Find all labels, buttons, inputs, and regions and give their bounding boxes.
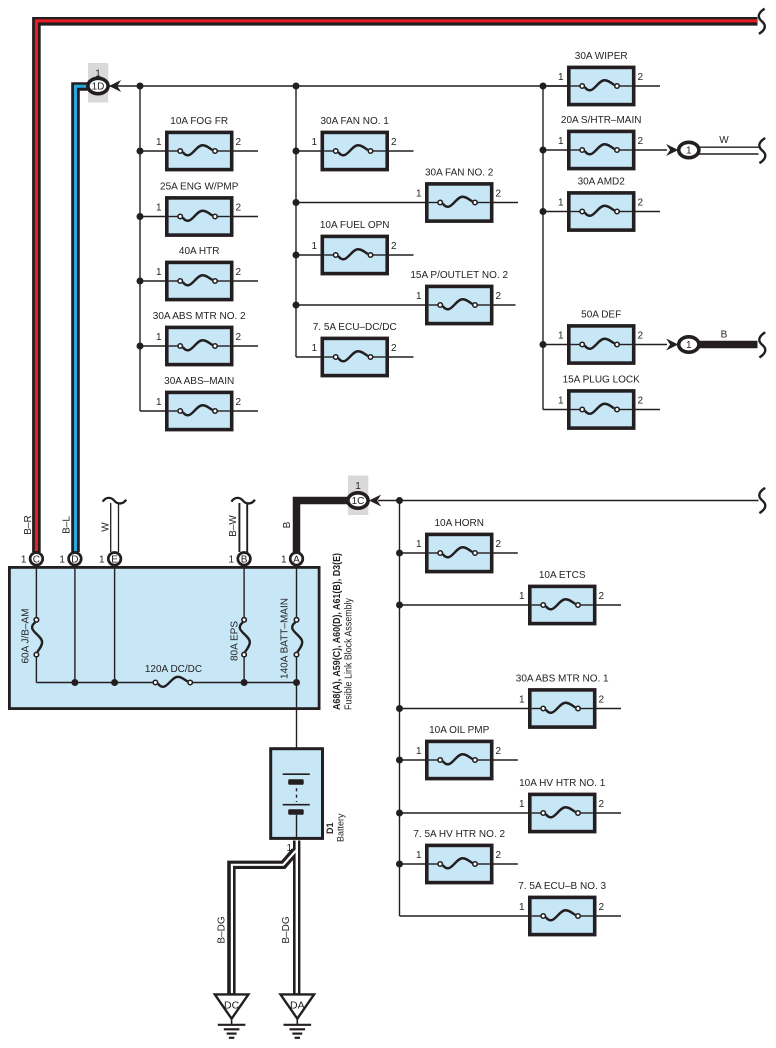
svg-text:2: 2 (236, 137, 242, 148)
svg-text:1C: 1C (352, 496, 365, 507)
svg-text:B–L: B–L (62, 516, 73, 534)
svg-text:10A ETCS: 10A ETCS (539, 570, 586, 581)
svg-text:1: 1 (416, 746, 422, 757)
svg-text:2: 2 (236, 203, 242, 214)
svg-text:2: 2 (599, 695, 605, 706)
svg-text:10A FUEL OPN: 10A FUEL OPN (320, 220, 390, 231)
svg-text:1: 1 (519, 695, 525, 706)
svg-text:W: W (719, 135, 729, 146)
svg-text:50A DEF: 50A DEF (581, 310, 621, 321)
svg-text:10A OIL PMP: 10A OIL PMP (429, 725, 490, 736)
svg-text:2: 2 (599, 902, 605, 913)
svg-text:1: 1 (686, 340, 692, 351)
svg-text:2: 2 (496, 291, 502, 302)
svg-text:25A ENG W/PMP: 25A ENG W/PMP (160, 182, 239, 193)
svg-text:2: 2 (496, 189, 502, 200)
svg-text:C: C (33, 554, 40, 565)
svg-text:30A ABS MTR NO. 2: 30A ABS MTR NO. 2 (153, 311, 246, 322)
svg-text:2: 2 (496, 850, 502, 861)
svg-text:B–DG: B–DG (281, 916, 292, 943)
svg-text:1: 1 (686, 146, 692, 157)
svg-text:1: 1 (416, 291, 422, 302)
svg-text:1: 1 (558, 331, 564, 342)
svg-text:2: 2 (496, 746, 502, 757)
svg-text:30A FAN NO. 2: 30A FAN NO. 2 (425, 168, 494, 179)
svg-text:30A AMD2: 30A AMD2 (578, 177, 626, 188)
svg-text:140A BATT–MAIN: 140A BATT–MAIN (280, 598, 291, 679)
svg-text:1: 1 (156, 137, 162, 148)
svg-text:B–R: B–R (23, 515, 34, 534)
svg-text:15A P/OUTLET NO. 2: 15A P/OUTLET NO. 2 (410, 270, 508, 281)
svg-text:1: 1 (558, 136, 564, 147)
svg-text:A: A (293, 554, 300, 565)
svg-text:30A ABS–MAIN: 30A ABS–MAIN (164, 376, 234, 387)
svg-text:10A HV HTR NO. 1: 10A HV HTR NO. 1 (519, 778, 606, 789)
svg-text:B: B (282, 521, 293, 528)
svg-text:Fusible Link Block Assembly: Fusible Link Block Assembly (344, 598, 355, 710)
svg-text:A68(A), A59(C), A60(D), A61: A68(A), A59(C), A60(D), A61(B), D3(E) (332, 553, 343, 710)
svg-text:D: D (71, 554, 78, 565)
svg-text:W: W (101, 522, 112, 532)
svg-text:1: 1 (558, 72, 564, 83)
svg-text:D1: D1 (325, 822, 335, 834)
svg-text:80A EPS: 80A EPS (230, 621, 241, 661)
svg-text:1: 1 (281, 554, 287, 565)
svg-text:B–W: B–W (228, 515, 239, 537)
svg-text:1: 1 (416, 189, 422, 200)
svg-text:2: 2 (638, 198, 644, 209)
svg-text:2: 2 (236, 332, 242, 343)
svg-text:1: 1 (416, 539, 422, 550)
svg-text:2: 2 (599, 799, 605, 810)
svg-text:1: 1 (286, 843, 292, 854)
svg-text:2: 2 (638, 331, 644, 342)
svg-text:120A DC/DC: 120A DC/DC (145, 664, 202, 675)
svg-text:2: 2 (391, 137, 397, 148)
svg-text:DA: DA (290, 999, 305, 1011)
svg-text:Battery: Battery (336, 813, 346, 842)
svg-text:1: 1 (558, 396, 564, 407)
svg-text:1D: 1D (92, 82, 105, 93)
svg-text:B: B (241, 554, 248, 565)
svg-text:7. 5A ECU–B NO. 3: 7. 5A ECU–B NO. 3 (518, 881, 606, 892)
svg-text:2: 2 (391, 343, 397, 354)
svg-text:30A ABS MTR NO. 1: 30A ABS MTR NO. 1 (516, 674, 609, 685)
svg-text:1: 1 (99, 554, 105, 565)
svg-text:2: 2 (638, 72, 644, 83)
svg-text:10A HORN: 10A HORN (434, 518, 483, 529)
svg-text:1: 1 (519, 902, 525, 913)
svg-text:1: 1 (156, 267, 162, 278)
svg-text:1: 1 (519, 799, 525, 810)
svg-text:2: 2 (599, 591, 605, 602)
svg-text:1: 1 (311, 137, 317, 148)
svg-text:7. 5A HV HTR NO. 2: 7. 5A HV HTR NO. 2 (413, 829, 505, 840)
svg-text:1: 1 (519, 591, 525, 602)
svg-text:2: 2 (638, 396, 644, 407)
svg-text:2: 2 (638, 136, 644, 147)
svg-text:2: 2 (496, 539, 502, 550)
svg-text:1: 1 (21, 554, 27, 565)
svg-text:40A HTR: 40A HTR (179, 246, 220, 257)
svg-text:1: 1 (156, 332, 162, 343)
svg-text:30A FAN NO. 1: 30A FAN NO. 1 (321, 116, 390, 127)
svg-text:1: 1 (416, 850, 422, 861)
svg-text:2: 2 (391, 241, 397, 252)
svg-text:1: 1 (355, 481, 361, 492)
svg-text:B: B (721, 330, 728, 341)
svg-text:30A WIPER: 30A WIPER (575, 51, 628, 62)
svg-text:7. 5A ECU–DC/DC: 7. 5A ECU–DC/DC (313, 322, 397, 333)
svg-text:1: 1 (229, 554, 235, 565)
svg-text:1: 1 (59, 554, 65, 565)
svg-text:DC: DC (224, 999, 240, 1011)
svg-text:15A PLUG LOCK: 15A PLUG LOCK (563, 375, 641, 386)
svg-text:10A FOG FR: 10A FOG FR (170, 116, 228, 127)
svg-text:20A S/HTR–MAIN: 20A S/HTR–MAIN (561, 115, 642, 126)
svg-text:1: 1 (558, 198, 564, 209)
svg-text:1: 1 (311, 343, 317, 354)
svg-text:1: 1 (156, 203, 162, 214)
svg-text:B–DG: B–DG (217, 916, 228, 943)
svg-text:2: 2 (236, 397, 242, 408)
svg-text:1: 1 (311, 241, 317, 252)
svg-text:1: 1 (156, 397, 162, 408)
svg-text:60A J/B–AM: 60A J/B–AM (21, 608, 32, 663)
svg-text:2: 2 (236, 267, 242, 278)
svg-text:E: E (111, 554, 118, 565)
